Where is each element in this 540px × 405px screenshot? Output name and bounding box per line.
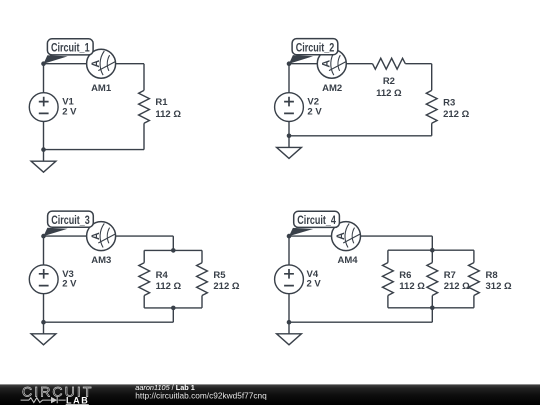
svg-text:2 V: 2 V bbox=[307, 106, 322, 117]
svg-text:R7: R7 bbox=[444, 270, 456, 281]
svg-text:112 Ω: 112 Ω bbox=[399, 281, 425, 292]
svg-text:AM3: AM3 bbox=[91, 255, 111, 266]
svg-text:AM4: AM4 bbox=[337, 255, 358, 266]
svg-text:112 Ω: 112 Ω bbox=[155, 109, 181, 120]
svg-text:R2: R2 bbox=[383, 76, 395, 87]
svg-text:312 Ω: 312 Ω bbox=[486, 281, 512, 292]
svg-text:R4: R4 bbox=[156, 270, 169, 281]
svg-text:2 V: 2 V bbox=[62, 106, 77, 117]
svg-text:212 Ω: 212 Ω bbox=[213, 281, 239, 292]
svg-text:212 Ω: 212 Ω bbox=[444, 281, 470, 292]
svg-text:R1: R1 bbox=[155, 97, 168, 108]
svg-text:Circuit_1: Circuit_1 bbox=[51, 41, 90, 55]
svg-text:R8: R8 bbox=[486, 270, 498, 281]
svg-text:http://circuitlab.com/c92kwd5f: http://circuitlab.com/c92kwd5f77cnq bbox=[135, 390, 267, 400]
svg-text:112 Ω: 112 Ω bbox=[376, 88, 402, 99]
svg-text:212 Ω: 212 Ω bbox=[443, 109, 469, 120]
svg-text:Circuit_3: Circuit_3 bbox=[51, 213, 90, 227]
svg-text:2 V: 2 V bbox=[307, 279, 322, 290]
svg-text:Circuit_2: Circuit_2 bbox=[296, 40, 335, 54]
svg-text:2 V: 2 V bbox=[62, 279, 77, 290]
svg-text:AM1: AM1 bbox=[91, 83, 112, 94]
svg-text:AM2: AM2 bbox=[322, 83, 342, 94]
svg-text:LAB: LAB bbox=[66, 396, 89, 405]
svg-text:112 Ω: 112 Ω bbox=[156, 281, 182, 292]
svg-text:R3: R3 bbox=[443, 97, 455, 108]
svg-text:R5: R5 bbox=[213, 270, 226, 281]
svg-text:Circuit_4: Circuit_4 bbox=[297, 213, 336, 227]
svg-text:R6: R6 bbox=[399, 270, 411, 281]
